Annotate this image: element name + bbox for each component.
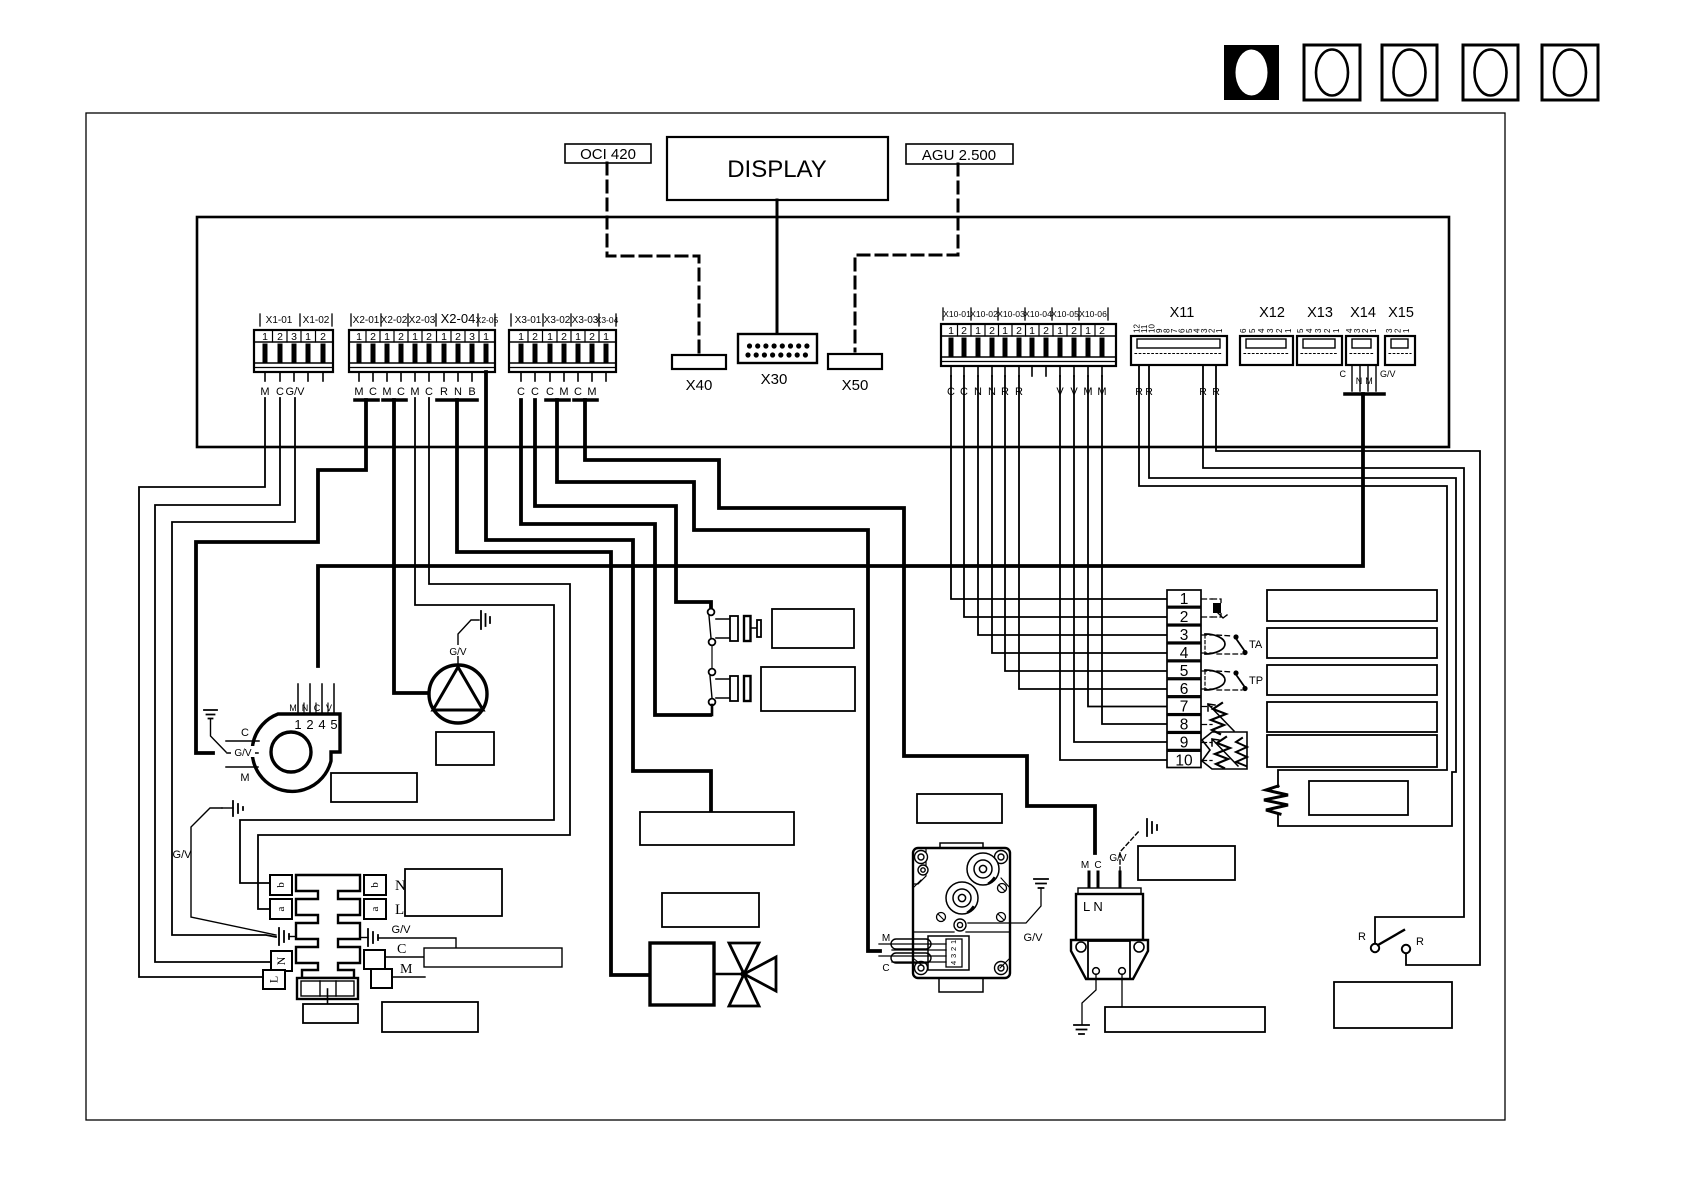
svg-text:1: 1 (441, 331, 447, 343)
svg-text:5: 5 (1180, 663, 1189, 680)
labels under X1: M C G/V (260, 386, 305, 398)
wire X2-03 C to terminal a (258, 398, 570, 909)
wire X3-03 to ignition transformer (thick) (585, 400, 1095, 853)
thermostat symbol upper (716, 616, 761, 641)
svg-text:X12: X12 (1259, 305, 1285, 321)
T-bar X3-02 (546, 398, 569, 402)
svg-text:a: a (275, 906, 287, 911)
svg-text:b: b (275, 882, 287, 888)
wire X1 pin C to N box (155, 398, 280, 962)
svg-text:2: 2 (589, 331, 595, 343)
connector X13 (1296, 305, 1342, 365)
svg-text:L N: L N (1083, 899, 1103, 914)
3-way valve stem (714, 973, 744, 975)
svg-text:1: 1 (603, 331, 609, 343)
svg-text:TA: TA (1249, 639, 1263, 651)
svg-text:1: 1 (1002, 325, 1008, 337)
T-bar X2-02 (383, 398, 406, 402)
svg-text:5: 5 (1296, 328, 1305, 333)
svg-text:1: 1 (949, 940, 958, 944)
svg-text:1: 1 (1215, 328, 1224, 333)
svg-text:4: 4 (318, 717, 325, 732)
svg-text:M: M (240, 772, 249, 784)
fan blower housing (252, 714, 340, 791)
terminal b right (364, 875, 406, 895)
wire X11 R to switch left contact (1203, 365, 1464, 943)
right label box 1 (1267, 590, 1437, 621)
svg-text:L: L (266, 976, 280, 983)
svg-text:G/V: G/V (286, 386, 306, 398)
terminal M box (371, 969, 392, 988)
svg-text:5: 5 (1248, 328, 1257, 333)
terminal a left (270, 899, 292, 919)
svg-text:2: 2 (277, 331, 283, 343)
svg-text:2: 2 (1043, 325, 1049, 337)
wire X3-02 to gas valve (thick) (557, 400, 880, 951)
label box above 3-way valve (662, 893, 759, 927)
svg-text:1: 1 (1029, 325, 1035, 337)
svg-text:M: M (289, 703, 297, 713)
svg-text:4: 4 (1257, 328, 1266, 333)
svg-text:3: 3 (949, 954, 958, 958)
svg-text:DISPLAY: DISPLAY (727, 156, 827, 183)
connector X40 (672, 355, 726, 394)
svg-text:X1-01: X1-01 (266, 315, 293, 326)
wire X10 x=1060 to terminal row 10 (1060, 376, 1167, 760)
connector X11 (1131, 305, 1227, 365)
svg-text:M: M (354, 386, 363, 398)
fan earth capacitor symbol (204, 710, 226, 752)
svg-text:2: 2 (561, 331, 567, 343)
svg-text:C: C (276, 386, 284, 398)
svg-text:G/V: G/V (173, 849, 193, 861)
igniter body (1076, 888, 1143, 940)
wire X10 x=1102 to terminal row 8 (1102, 376, 1167, 724)
gas valve centre screw (954, 919, 966, 931)
wire X2-04 RNB to 3-way valve (thick) (457, 400, 650, 975)
svg-text:G/V: G/V (449, 647, 467, 658)
T-bar X3-03 (574, 398, 597, 402)
svg-text:2: 2 (1275, 328, 1284, 333)
X14 pin stubs and labels C N M G/V (1340, 365, 1396, 391)
svg-text:G/V: G/V (392, 924, 412, 936)
svg-text:1: 1 (1180, 591, 1189, 608)
svg-text:1: 1 (948, 325, 954, 337)
fuse holder (297, 978, 358, 1004)
wire X10 x=951 to terminal row 1 (951, 376, 1167, 599)
svg-text:10: 10 (1175, 753, 1193, 770)
svg-text:X10-05: X10-05 (1051, 309, 1079, 319)
svg-text:1: 1 (1284, 328, 1293, 333)
svg-text:G/V: G/V (1024, 932, 1044, 944)
svg-text:1: 1 (305, 331, 311, 343)
wire X11 R to switch right contact (1216, 365, 1480, 965)
svg-text:C: C (1340, 369, 1347, 379)
wire X10 x=978 to terminal row 3 (978, 376, 1167, 635)
svg-text:2: 2 (426, 331, 432, 343)
svg-text:C: C (574, 386, 582, 398)
svg-text:X50: X50 (842, 377, 869, 394)
wire X2-02 to pump (thick) (394, 400, 428, 693)
svg-text:1: 1 (975, 325, 981, 337)
svg-text:AGU 2.500: AGU 2.500 (922, 147, 996, 164)
svg-text:5: 5 (330, 717, 337, 732)
pump triangle (433, 667, 483, 710)
svg-text:X40: X40 (686, 377, 713, 394)
right label box 5 (1267, 735, 1437, 767)
sensor resistors rows 9-10 (1202, 732, 1247, 769)
svg-text:N: N (1356, 376, 1363, 386)
svg-text:X10-06: X10-06 (1079, 309, 1107, 319)
svg-text:M: M (587, 386, 596, 398)
OCI 420 box (565, 144, 651, 163)
svg-text:M: M (400, 962, 413, 977)
wire X1 pin G/V to terminal earth (172, 398, 295, 937)
igniter earth bottom (1074, 974, 1096, 1034)
svg-text:3: 3 (1314, 328, 1323, 333)
icon box 4 (1463, 45, 1518, 100)
terminal C box (364, 950, 385, 969)
labels under X3: C C C M C M (517, 386, 597, 398)
svg-text:8: 8 (1180, 717, 1189, 734)
wire X10 x=992 to terminal row 4 (992, 376, 1167, 653)
icon box 3 (1382, 45, 1437, 100)
svg-text:7: 7 (1180, 699, 1189, 716)
svg-text:2: 2 (1016, 325, 1022, 337)
svg-text:1: 1 (1402, 328, 1411, 333)
svg-text:X2-01: X2-01 (353, 315, 380, 326)
svg-text:R: R (1416, 936, 1424, 948)
svg-text:C: C (517, 386, 525, 398)
wire DISPLAY to X30 (776, 200, 779, 333)
svg-text:1: 1 (518, 331, 524, 343)
svg-text:2: 2 (1180, 609, 1189, 626)
svg-text:M: M (882, 933, 890, 944)
svg-text:C: C (241, 727, 249, 739)
connector block X2 (349, 311, 499, 381)
room thermostat box (424, 948, 562, 967)
svg-text:2: 2 (949, 947, 958, 951)
svg-text:1: 1 (1085, 325, 1091, 337)
AGU 2.500 box (906, 144, 1013, 164)
dashed wire AGU2.500 to X50 (855, 164, 958, 351)
svg-text:X10-02: X10-02 (970, 309, 998, 319)
gas valve small screws (937, 884, 1007, 922)
gas valve inner corner line (913, 848, 926, 884)
svg-text:4: 4 (949, 961, 958, 965)
svg-text:6: 6 (1239, 328, 1248, 333)
svg-text:2: 2 (370, 331, 376, 343)
label box under pump (436, 732, 494, 765)
gas valve M C leads (879, 933, 946, 974)
svg-text:C: C (531, 386, 539, 398)
right label box 3 (1267, 665, 1437, 695)
wire X10 x=1005 to terminal row 5 (1005, 376, 1167, 671)
control board outline (197, 217, 1449, 447)
svg-text:1: 1 (356, 331, 362, 343)
gas valve upper port (967, 853, 999, 885)
gas valve connector block 1234 (928, 936, 969, 970)
svg-text:X10-04: X10-04 (1024, 309, 1052, 319)
connector block X3 (509, 314, 619, 381)
connector X14 (1345, 305, 1378, 365)
fan terminal lines M N C V (289, 684, 337, 732)
gas valve small ring top-left (918, 865, 928, 875)
svg-text:4: 4 (1180, 645, 1189, 662)
svg-text:C: C (314, 703, 321, 713)
svg-text:M: M (559, 386, 568, 398)
opto TA rows 3-4 (1205, 634, 1263, 655)
igniter pins M C GV (1081, 830, 1140, 889)
connector X50 (828, 354, 882, 394)
svg-text:1: 1 (1057, 325, 1063, 337)
svg-text:X11: X11 (1170, 305, 1195, 321)
lead C to room stat box (385, 942, 424, 957)
labels under X2: M C M C M C R N B (354, 386, 475, 398)
svg-text:2: 2 (1071, 325, 1077, 337)
3-way valve motor box (650, 943, 714, 1005)
sensor resistor rows 7-8 (1208, 703, 1234, 734)
svg-text:M: M (1081, 860, 1089, 871)
comb earth left (279, 928, 296, 945)
wire X3-01 pin2 to safety switch chain top (thick) (535, 400, 711, 608)
svg-text:C: C (397, 942, 406, 957)
label box right of igniter (1138, 846, 1235, 880)
T-bar X2-01 (355, 398, 378, 402)
svg-text:2: 2 (306, 717, 313, 732)
wire X11 R pair to outdoor sensor loop (1139, 365, 1447, 787)
svg-text:1: 1 (547, 331, 553, 343)
outdoor sensor label box (1309, 781, 1408, 815)
svg-text:1: 1 (575, 331, 581, 343)
flame sensor symbol rows 1-2 (1212, 599, 1227, 618)
svg-text:X3-01: X3-01 (515, 315, 542, 326)
icon box 2 (1304, 45, 1360, 100)
svg-text:R: R (440, 386, 448, 398)
svg-text:G/V: G/V (1109, 853, 1127, 864)
label box under fan (331, 773, 417, 802)
wire X2-01 to fan supply (thick) (196, 400, 366, 753)
svg-text:C: C (882, 963, 889, 974)
wire X10 x=1088 to terminal row 7 (1088, 376, 1167, 707)
svg-text:1: 1 (1369, 328, 1378, 333)
fan side lead C (226, 727, 259, 741)
connector X12 (1239, 305, 1293, 365)
3-way valve triangles (729, 943, 776, 1006)
svg-text:3: 3 (291, 331, 297, 343)
gas valve corner screws (913, 851, 1010, 975)
thermostat symbol lower (716, 676, 751, 701)
igniter lead to label box (1121, 974, 1123, 1007)
svg-text:N: N (274, 956, 288, 965)
svg-text:b: b (369, 882, 381, 888)
svg-text:B: B (468, 386, 475, 398)
labels under X10: C C N N R R V V M M (947, 386, 1107, 398)
gas valve body (913, 848, 1010, 978)
label box bottom right of comb (382, 1002, 478, 1032)
svg-text:X14: X14 (1350, 305, 1376, 321)
svg-text:2: 2 (455, 331, 461, 343)
svg-text:M: M (260, 386, 269, 398)
earth symbol left column G/V (173, 800, 276, 935)
outdoor sensor resistor (1264, 786, 1288, 814)
igniter earth top (1147, 819, 1157, 836)
gas valve bottom tab (939, 978, 983, 992)
right label box 2 (1267, 628, 1437, 658)
svg-text:2: 2 (532, 331, 538, 343)
labels under X11: R R R R (1135, 386, 1220, 398)
terminal b left (270, 875, 292, 895)
svg-text:X10-03: X10-03 (997, 309, 1025, 319)
svg-text:X2-02: X2-02 (381, 315, 408, 326)
svg-text:1: 1 (1332, 328, 1341, 333)
svg-text:X15: X15 (1388, 305, 1414, 321)
gas valve mid split line (913, 931, 1010, 933)
label box under fuse (303, 1004, 358, 1023)
terminal N box (271, 951, 292, 971)
label box upper thermostat (772, 609, 854, 648)
fan side lead M (226, 767, 258, 784)
switch R R (1358, 930, 1424, 953)
svg-text:X13: X13 (1307, 305, 1333, 321)
wire X2-03 M to terminal b (240, 398, 554, 883)
svg-text:X1-02: X1-02 (303, 315, 330, 326)
DISPLAY box (667, 137, 888, 200)
connector block X10 (941, 308, 1116, 376)
icon box 5 (1542, 45, 1598, 100)
svg-text:a: a (369, 906, 381, 911)
svg-text:1: 1 (384, 331, 390, 343)
svg-text:6: 6 (1180, 681, 1189, 698)
svg-text:2: 2 (398, 331, 404, 343)
gas valve lower port (946, 882, 978, 914)
terminal L box (263, 970, 285, 989)
label box bottom right (1334, 982, 1452, 1028)
right label box 4 (1267, 702, 1437, 732)
T-bar X14 (1345, 392, 1384, 396)
svg-text:M: M (1365, 376, 1373, 386)
svg-text:TP: TP (1249, 675, 1263, 687)
svg-text:1: 1 (412, 331, 418, 343)
pump circle (429, 665, 487, 723)
wire X10 x=1019 to terminal row 6 (1019, 376, 1167, 689)
svg-text:V: V (326, 703, 332, 713)
terminal a right (364, 899, 404, 919)
svg-text:C: C (546, 386, 554, 398)
wire X3-01 pin1 to safety switch chain bottom (thick) (521, 400, 710, 715)
wire X10 x=964 to terminal row 2 (964, 376, 1167, 617)
svg-text:N: N (454, 386, 462, 398)
T-bar X2-04 R N B (437, 398, 477, 402)
wire X2-05 to thermostat label box (thick) (486, 372, 711, 812)
svg-text:N: N (302, 703, 309, 713)
connector X15 (1385, 305, 1415, 365)
connector block X1 (254, 314, 333, 381)
svg-text:2: 2 (961, 325, 967, 337)
svg-text:X3-02: X3-02 (544, 315, 571, 326)
fan side lead G/V (227, 746, 258, 759)
svg-text:1: 1 (483, 331, 489, 343)
gas valve earth G/V (968, 879, 1048, 944)
wire X14 to fan control (long thick) (318, 394, 1363, 666)
icon box 1 (filled) (1224, 45, 1279, 100)
svg-text:C: C (397, 386, 405, 398)
terminal strip dashed stubs (1202, 599, 1212, 761)
svg-text:1: 1 (262, 331, 268, 343)
fan inner circle (271, 732, 311, 772)
svg-text:C: C (425, 386, 433, 398)
dashed wire OCI420 to X40 (607, 163, 699, 352)
pump earth lead G/V (447, 611, 490, 665)
label box thermostat (fed by X2-05) (640, 812, 794, 845)
svg-text:X30: X30 (761, 371, 788, 388)
wire X10 x=1074 to terminal row 9 (1074, 376, 1167, 742)
svg-text:C: C (369, 386, 377, 398)
svg-text:G/V: G/V (1380, 369, 1396, 379)
svg-text:9: 9 (1180, 735, 1189, 752)
svg-text:G/V: G/V (234, 748, 252, 759)
svg-text:3: 3 (1180, 627, 1189, 644)
lead M stub (392, 962, 425, 977)
connector X30 (738, 334, 817, 388)
svg-text:2: 2 (1323, 328, 1332, 333)
label box above gas valve (917, 794, 1002, 823)
wire X1 pin M to L box (139, 398, 265, 977)
igniter foot (1071, 940, 1148, 979)
page border frame (86, 113, 1505, 1120)
comb earth right with G/V lead (360, 924, 456, 948)
svg-text:2: 2 (1099, 325, 1105, 337)
svg-text:2: 2 (320, 331, 326, 343)
svg-text:X10-01: X10-01 (943, 309, 971, 319)
svg-text:M: M (410, 386, 419, 398)
label box under igniter (1105, 1007, 1265, 1032)
svg-text:L: L (395, 902, 404, 918)
svg-text:X3-04: X3-04 (596, 315, 619, 325)
thermostat switch chain contacts (708, 609, 716, 715)
svg-text:C: C (1094, 860, 1101, 871)
opto TP rows 5-6 (1205, 670, 1263, 691)
svg-text:2: 2 (989, 325, 995, 337)
terminal strip 1-10 (1167, 590, 1201, 770)
label box right of comb (405, 869, 502, 916)
main terminal comb (296, 875, 360, 978)
svg-text:4: 4 (1305, 328, 1314, 333)
svg-text:OCI 420: OCI 420 (580, 146, 636, 163)
label box lower thermostat (761, 667, 855, 711)
gas valve top tab (940, 843, 983, 848)
svg-text:M: M (382, 386, 391, 398)
svg-text:3: 3 (469, 331, 475, 343)
svg-text:R: R (1358, 931, 1366, 943)
svg-text:1: 1 (294, 717, 301, 732)
svg-text:X2-04: X2-04 (441, 311, 476, 326)
svg-text:X2-03: X2-03 (409, 315, 436, 326)
svg-text:3: 3 (1266, 328, 1275, 333)
